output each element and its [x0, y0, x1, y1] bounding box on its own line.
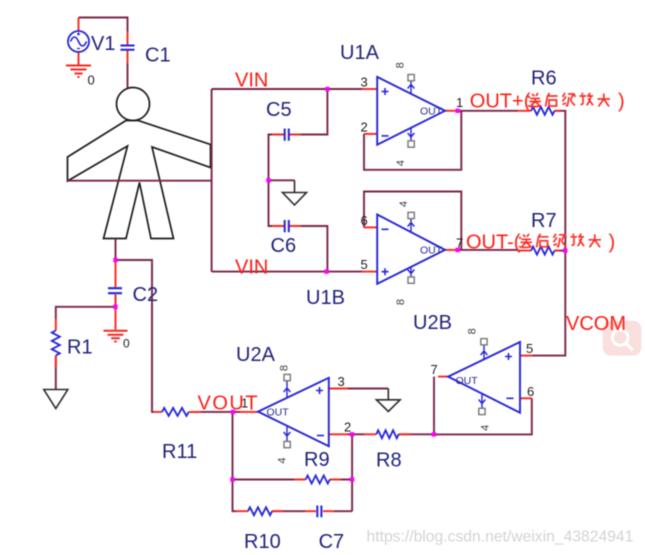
svg-text:7: 7: [456, 236, 463, 251]
svg-text:6: 6: [361, 213, 368, 228]
svg-text:5: 5: [526, 341, 533, 356]
svg-text:C5: C5: [266, 99, 292, 121]
svg-text:C2: C2: [133, 284, 159, 306]
svg-text:VIN: VIN: [235, 69, 268, 91]
svg-text:C7: C7: [319, 531, 345, 553]
svg-text:U1B: U1B: [306, 287, 345, 309]
svg-text:R8: R8: [376, 450, 402, 472]
svg-text:8: 8: [395, 62, 407, 68]
svg-text:0: 0: [123, 337, 130, 351]
svg-text:3: 3: [338, 374, 345, 389]
svg-text:R1: R1: [67, 336, 93, 358]
svg-text:U1A: U1A: [340, 42, 380, 64]
svg-text:1: 1: [456, 95, 463, 110]
svg-text:R6: R6: [531, 68, 557, 90]
svg-text:4: 4: [480, 425, 492, 431]
svg-text:R11: R11: [162, 441, 197, 463]
svg-text:C6: C6: [271, 235, 297, 257]
svg-text:6: 6: [527, 384, 534, 399]
svg-text:C1: C1: [145, 45, 171, 67]
svg-text:): ): [618, 91, 625, 113]
svg-text:https://blog.csdn.net/weixin_4: https://blog.csdn.net/weixin_43824941: [367, 529, 634, 546]
svg-text:VCOM: VCOM: [566, 313, 626, 335]
svg-text:U2A: U2A: [236, 344, 276, 366]
svg-text:8: 8: [279, 365, 291, 371]
svg-text:VOUT: VOUT: [198, 393, 260, 415]
svg-text:OUT-(: OUT-(: [466, 231, 521, 253]
svg-text:OUT: OUT: [456, 375, 479, 387]
svg-text:4: 4: [277, 457, 289, 463]
svg-text:0: 0: [88, 73, 95, 88]
svg-text:V1: V1: [91, 33, 115, 55]
svg-text:): ): [609, 231, 616, 253]
svg-text:OUT+(: OUT+(: [470, 91, 531, 113]
svg-text:U2B: U2B: [413, 312, 452, 334]
svg-text:3: 3: [361, 75, 368, 90]
svg-text:R10: R10: [244, 531, 281, 553]
svg-text:OUT: OUT: [267, 407, 290, 419]
svg-text:4: 4: [398, 201, 410, 207]
svg-text:8: 8: [395, 299, 407, 305]
svg-text:R7: R7: [531, 210, 557, 232]
svg-text:7: 7: [431, 362, 438, 377]
svg-text:OUT: OUT: [420, 245, 443, 257]
svg-text:5: 5: [361, 257, 368, 272]
svg-text:VIN: VIN: [235, 256, 268, 278]
svg-text:2: 2: [361, 120, 368, 135]
svg-text:OUT: OUT: [420, 106, 443, 118]
svg-text:R9: R9: [304, 449, 330, 471]
svg-text:2: 2: [344, 420, 351, 435]
svg-text:8: 8: [467, 328, 479, 334]
svg-text:4: 4: [395, 160, 407, 166]
